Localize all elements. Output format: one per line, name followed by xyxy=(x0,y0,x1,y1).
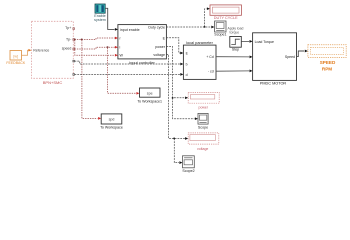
svg-text:Tp+: Tp+ xyxy=(65,26,71,30)
svg-text:speed: speed xyxy=(62,46,72,50)
svg-text:Speed: Speed xyxy=(285,55,295,59)
svg-text:Step: Step xyxy=(232,48,239,52)
svg-text:b: b xyxy=(186,63,188,67)
signal builder block "Enable system" xyxy=(94,4,106,22)
wire: power -> power display and Scope xyxy=(166,47,198,120)
svg-text:SPEED: SPEED xyxy=(320,60,336,65)
svg-text:Duty cycle: Duty cycle xyxy=(148,26,165,30)
scope block: Scope2 xyxy=(182,156,194,173)
svg-text:power: power xyxy=(199,106,209,110)
svg-text:FEEDBACK: FEEDBACK xyxy=(6,61,26,65)
wire: Duty cycle -> junction -> Scope1 and up to DUTY CYCLE display xyxy=(166,7,214,28)
red wire: speed -> controller i (with jog) xyxy=(75,46,119,49)
svg-text:+ Cd: + Cd xyxy=(206,55,213,59)
svg-text:input enable: input enable xyxy=(120,28,140,32)
black wire: dashed block port5 -> local parameter in3 xyxy=(75,73,184,76)
svg-text:BPN+SMC: BPN+SMC xyxy=(43,80,63,85)
svg-text:system: system xyxy=(94,18,106,22)
svg-text:d: d xyxy=(186,73,188,77)
wires: local parameter -> PMDC motor xyxy=(216,56,253,73)
svg-text:To Workspace1: To Workspace1 xyxy=(137,100,162,104)
black wire: dashed block port4 -> local parameter in2 xyxy=(75,61,184,65)
svg-text:[w]: [w] xyxy=(13,54,18,58)
svg-text:PMDC MOTOR: PMDC MOTOR xyxy=(260,82,287,86)
step block: Apply load torque xyxy=(228,27,253,52)
red wire: branch down -> To Workspace1 xyxy=(108,48,140,95)
svg-text:voltage: voltage xyxy=(197,147,208,151)
svg-text:W: W xyxy=(120,54,124,58)
svg-text:power: power xyxy=(155,45,166,49)
svg-text:torque: torque xyxy=(230,30,240,34)
svg-text:voltage: voltage xyxy=(153,53,165,57)
svg-text:local parameter: local parameter xyxy=(186,40,214,45)
wire: enable system -> input controller xyxy=(105,8,118,30)
svg-text:Scope1: Scope1 xyxy=(214,33,226,37)
subsystem block: PMDC MOTOR xyxy=(253,33,297,86)
display: voltage xyxy=(188,133,219,151)
svg-text:- cd: - cd xyxy=(208,70,214,74)
red wire: branch -> controller W xyxy=(75,40,118,57)
To Workspace1 block xyxy=(137,88,162,104)
To Workspace block xyxy=(100,114,123,129)
red wire: Tp- -> controller r (with jog) xyxy=(74,37,118,41)
subsystem block: local parameter xyxy=(183,40,216,79)
svg-text:Tp-: Tp- xyxy=(66,38,72,42)
wire: Speed -> SPEED RPM display xyxy=(297,50,308,57)
svg-text:Load Torque: Load Torque xyxy=(255,40,274,44)
display: SPEED RPM (orange dashed) xyxy=(308,45,346,72)
svg-text:spd: spd xyxy=(109,118,115,122)
subsystem block: input controller xyxy=(118,25,166,65)
scope block: Scope xyxy=(198,113,208,129)
svg-text:RPM: RPM xyxy=(322,67,332,72)
scope block: Scope1 xyxy=(214,21,226,37)
svg-text:Scope2: Scope2 xyxy=(182,169,194,173)
svg-text:spe: spe xyxy=(147,91,153,95)
From block FEEDBACK (orange) xyxy=(6,49,31,65)
display: power xyxy=(188,92,219,109)
display: DUTY CYCLE xyxy=(210,5,241,20)
commented-out controller block (red dashed) BPN+SMC xyxy=(32,21,75,85)
svg-text:To Workspace: To Workspace xyxy=(100,125,123,129)
svg-text:DUTY CYCLE: DUTY CYCLE xyxy=(214,16,238,20)
svg-text:Scope: Scope xyxy=(198,126,208,130)
svg-text:Reference: Reference xyxy=(33,48,49,52)
wire: E -> local parameter in1 xyxy=(166,38,183,55)
wire: voltage -> voltage display and Scope2 xyxy=(166,54,188,164)
red wire: branch down -> To Workspace xyxy=(82,40,101,120)
